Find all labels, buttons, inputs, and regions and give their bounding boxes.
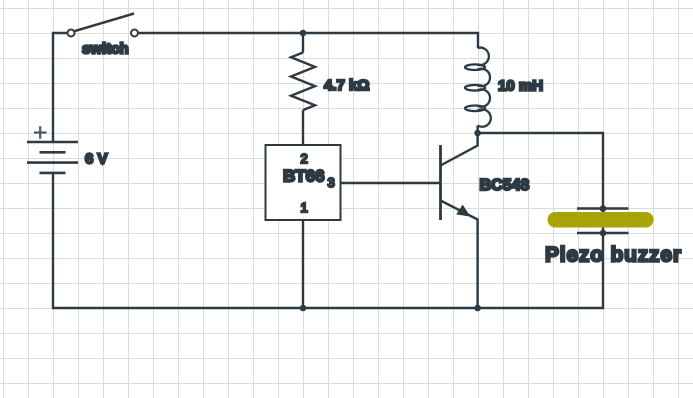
svg-text:6 V: 6 V [85,151,108,168]
node dot pin1 bottom junction [300,305,307,312]
svg-text:BT66: BT66 [283,167,325,186]
svg-text:BC548: BC548 [480,177,530,194]
wire left vertical from switch to battery [53,33,68,142]
node dot piezo bottom [600,230,607,237]
battery plus sign [34,126,47,139]
node dot collector junction [474,130,481,137]
svg-text:3: 3 [328,175,335,190]
resistor R1 4.7 k ohm [291,33,315,145]
node dot emitter bottom junction [474,305,481,312]
inductor L1 10 mH [465,48,491,127]
wire battery negative to bottom rail and piezo [53,173,603,308]
piezo buzzer LS1 [548,209,654,234]
svg-text:10 mH: 10 mH [498,78,543,95]
switch S1 [68,14,139,37]
battery BT1 6 V [27,142,78,173]
node dot resistor top junction [300,30,307,37]
node dot piezo top [600,205,607,212]
wire top rail from switch to resistor and inductor [138,33,478,48]
wire BT66 pin1 to bottom rail [302,220,304,308]
svg-text:2: 2 [301,151,308,166]
svg-text:Piezo buzzer: Piezo buzzer [545,244,682,267]
svg-text:1: 1 [301,200,308,215]
svg-text:switch: switch [82,41,129,58]
wire BT66 pin3 to transistor base [341,182,441,184]
wire collector node to piezo [478,133,603,212]
svg-text:4.7 kΩ: 4.7 kΩ [324,77,369,94]
IC U1 BT66 box [266,145,341,220]
transistor Q1 BC548 [441,133,478,308]
wire inductor bottom stub to collector node [476,126,478,134]
